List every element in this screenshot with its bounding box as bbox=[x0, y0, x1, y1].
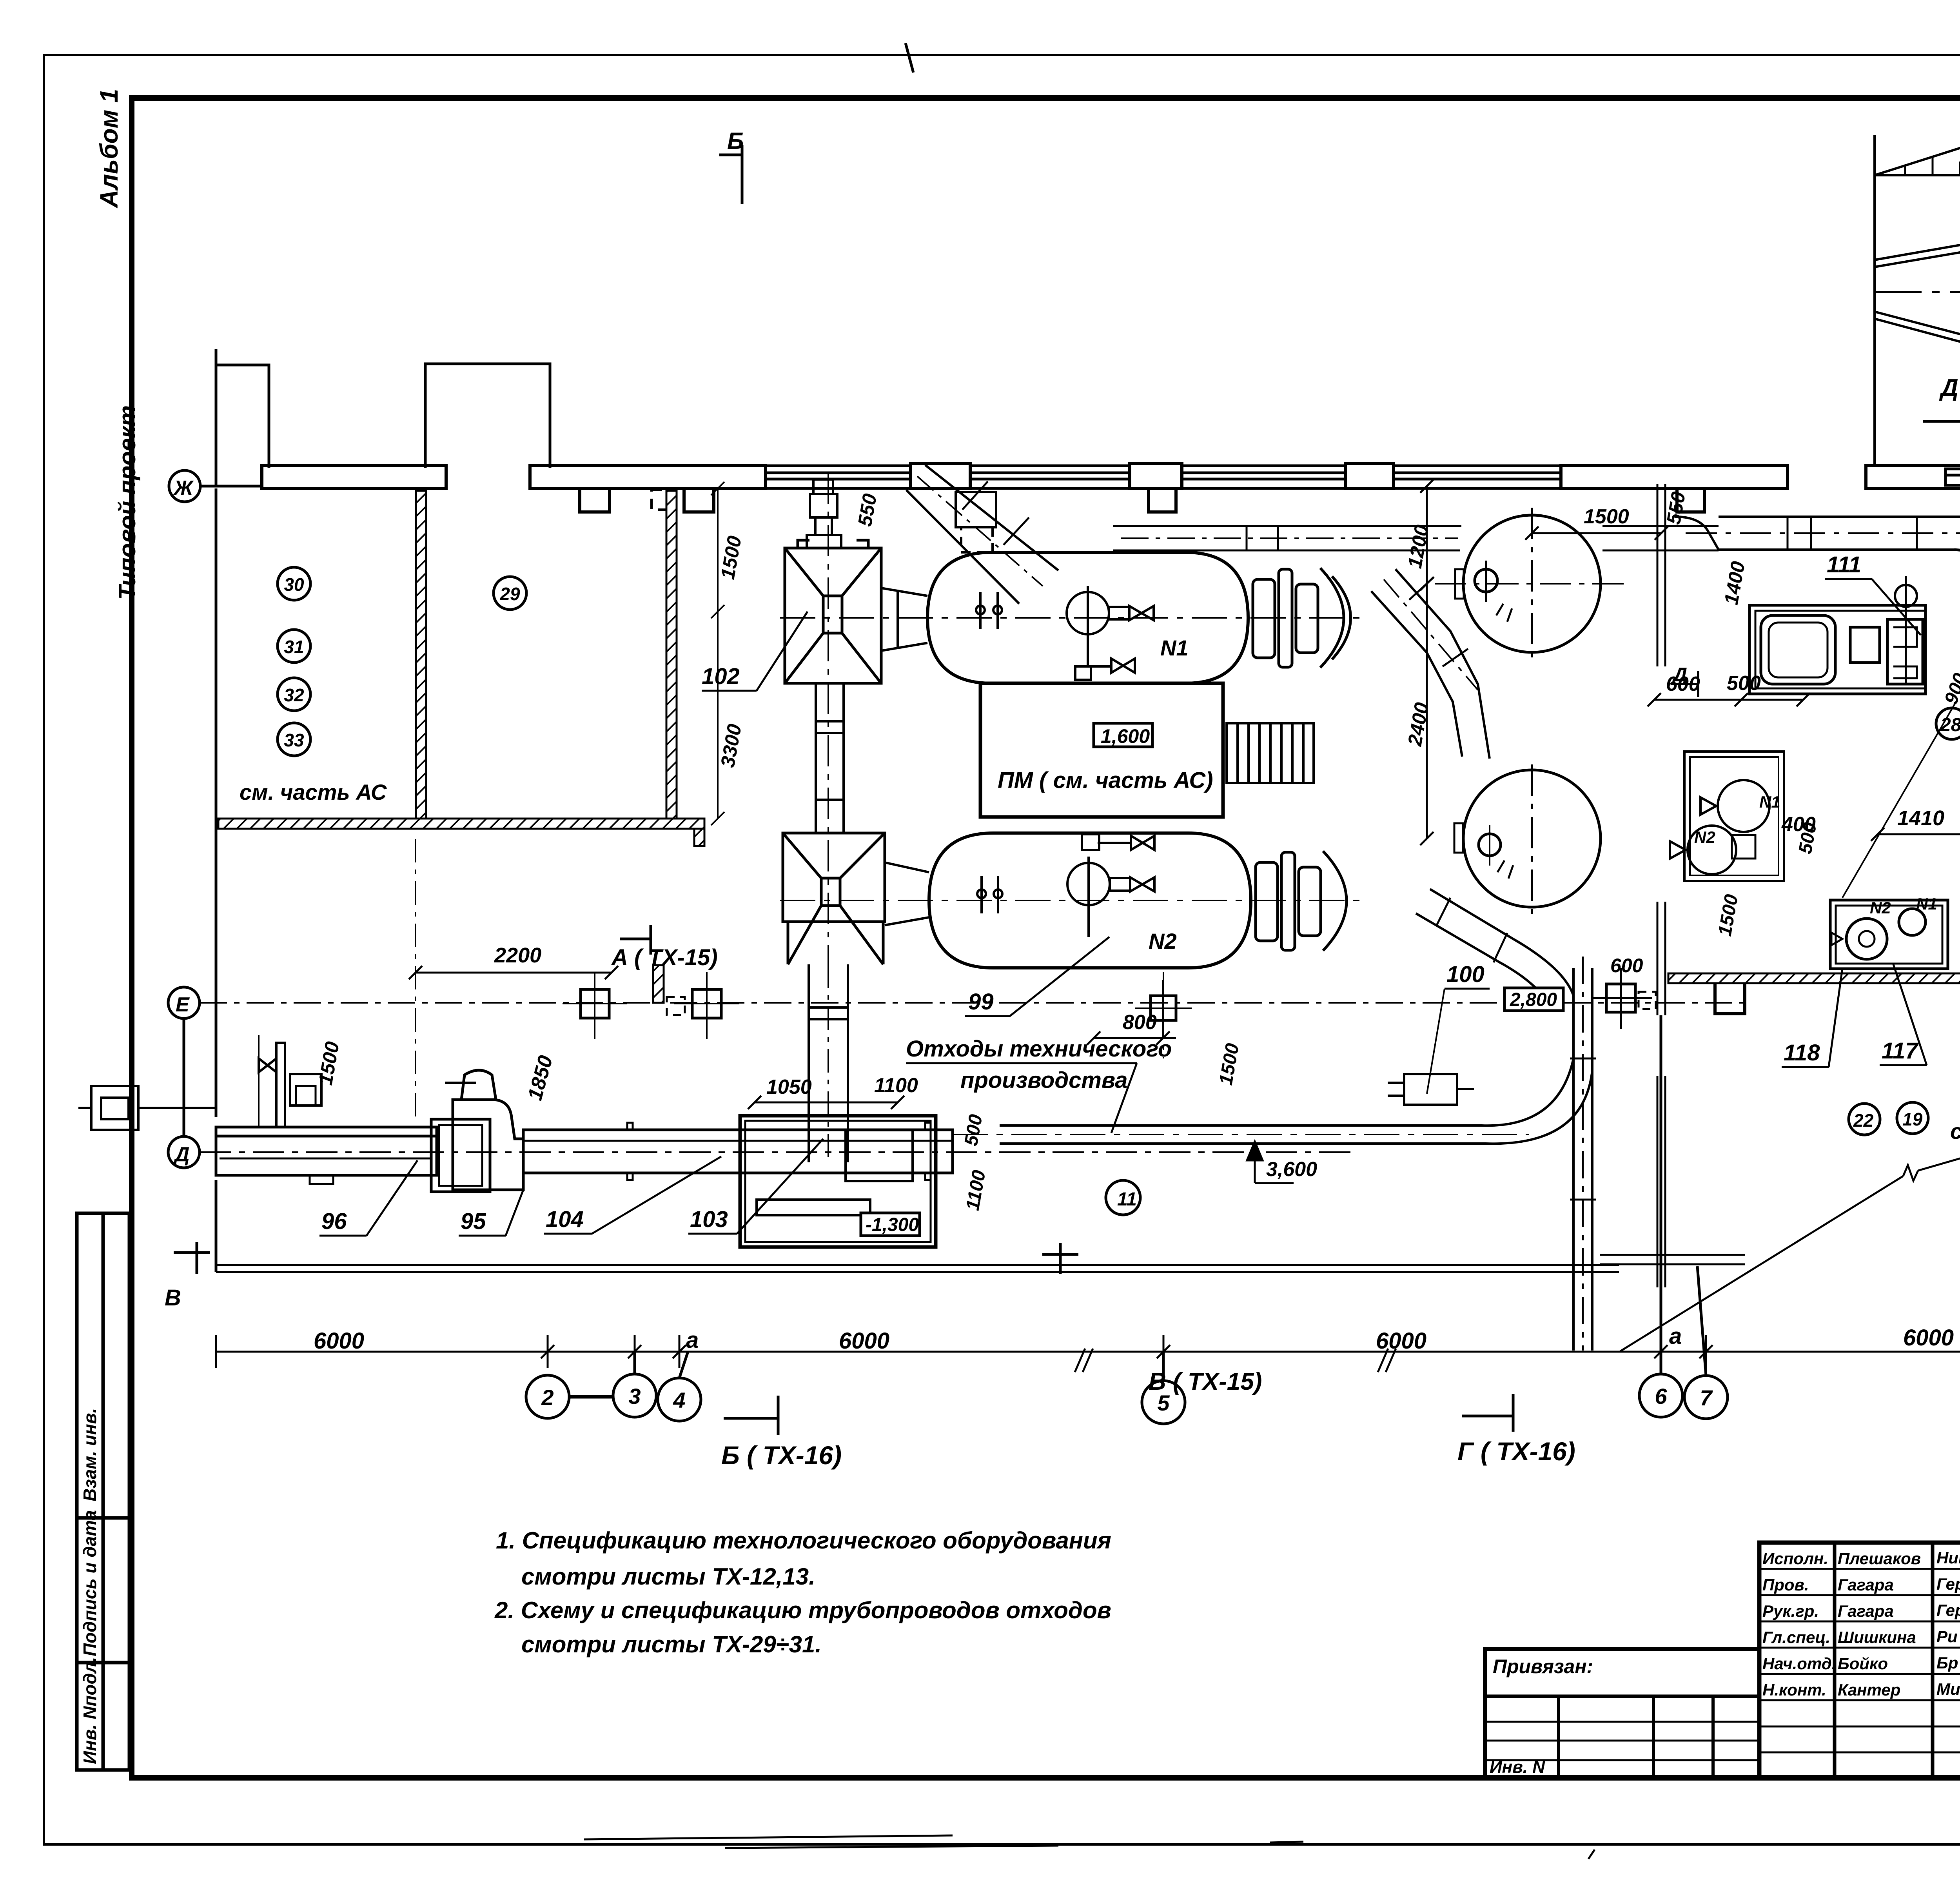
svg-text:Альбом 1: Альбом 1 bbox=[95, 89, 123, 209]
window band 4 bbox=[1394, 466, 1561, 488]
svg-text:7: 7 bbox=[1700, 1385, 1713, 1410]
svg-text:ПМ ( см. часть АС): ПМ ( см. часть АС) bbox=[998, 768, 1213, 793]
hatched wall between room AC and room 29 bbox=[416, 491, 426, 822]
svg-text:Кантер: Кантер bbox=[1838, 1681, 1900, 1699]
svg-text:103: 103 bbox=[690, 1207, 728, 1232]
feed cone into N1 bbox=[881, 588, 927, 651]
ref circle 29 bbox=[494, 577, 526, 610]
elevation box 1,600 bbox=[1094, 723, 1152, 747]
svg-text:а: а bbox=[1669, 1323, 1682, 1349]
waste pipe vertical duct bbox=[1570, 957, 1596, 1351]
window band 1 bbox=[766, 466, 911, 488]
bottom margin smudge bbox=[584, 1835, 1595, 1859]
railing tick marks bbox=[1905, 134, 1960, 175]
svg-text:Пров.: Пров. bbox=[1762, 1576, 1809, 1594]
shaft between hoppers bbox=[816, 683, 844, 833]
hopper unit 102 lower box with funnel bbox=[783, 833, 885, 964]
svg-text:1410: 1410 bbox=[1897, 806, 1944, 830]
svg-text:2: 2 bbox=[541, 1385, 554, 1410]
axis leader lines up bbox=[633, 1352, 636, 1374]
svg-text:Привязан:: Привязан: bbox=[1493, 1656, 1593, 1677]
window band 2 bbox=[970, 466, 1130, 488]
axis Е circle bbox=[168, 987, 200, 1136]
svg-text:Бр: Бр bbox=[1936, 1654, 1958, 1672]
building bottom wall bbox=[216, 1265, 1619, 1272]
section mark Б top bbox=[719, 145, 742, 204]
svg-text:Шишкина: Шишкина bbox=[1838, 1628, 1916, 1646]
svg-text:Гл.спец.: Гл.спец. bbox=[1762, 1628, 1830, 1646]
svg-text:Е: Е bbox=[176, 993, 190, 1016]
vessel N1 scalder bbox=[927, 552, 1248, 683]
road upper edge bbox=[1875, 242, 1960, 267]
svg-text:800: 800 bbox=[1123, 1011, 1157, 1034]
vessel N2 fittings bbox=[977, 834, 1154, 937]
estakada left boundary bbox=[1873, 135, 1876, 465]
svg-text:500: 500 bbox=[1727, 672, 1761, 695]
bottom hatched wall of AC rooms bbox=[218, 819, 704, 829]
svg-text:100: 100 bbox=[1446, 962, 1485, 987]
dashed opening next to hatched wall bbox=[652, 490, 676, 510]
leader diagonals from 117/118 to equipment bbox=[1842, 702, 1960, 898]
axis Д circle bbox=[168, 1136, 200, 1168]
road lower edge bbox=[1875, 312, 1960, 347]
hatched wall right of room 29 bbox=[666, 491, 677, 822]
svg-text:Исполн.: Исполн. bbox=[1762, 1549, 1828, 1568]
svg-text:99: 99 bbox=[968, 989, 994, 1015]
svg-text:см. часть АС: см. часть АС bbox=[240, 780, 387, 804]
bottom overall dimension line bbox=[216, 1335, 1960, 1368]
svg-text:3,600: 3,600 bbox=[1266, 1158, 1317, 1181]
privyazan block bbox=[1485, 1649, 1759, 1778]
overhead duct dashed to elbow bbox=[1675, 517, 1960, 550]
Д section small mark bbox=[1671, 671, 1698, 697]
svg-text:95: 95 bbox=[461, 1209, 486, 1234]
axis Д / conveyor centerline bbox=[200, 1151, 1352, 1153]
svg-text:4: 4 bbox=[673, 1388, 685, 1412]
svg-text:6000: 6000 bbox=[1376, 1328, 1426, 1354]
pump unit 117 box bbox=[1830, 900, 1948, 969]
svg-text:Взам. инв.: Взам. инв. bbox=[80, 1408, 100, 1501]
elevation box 2,800 bbox=[1504, 988, 1563, 1011]
vessel N2 centerline bbox=[780, 900, 1360, 901]
diagonal duct into vessel N1 bbox=[906, 465, 1058, 604]
svg-text:Рук.гр.: Рук.гр. bbox=[1762, 1602, 1819, 1620]
waste pipe centerline bbox=[953, 1134, 1529, 1135]
column squares with crosses left area bbox=[563, 965, 739, 1039]
overhead duct above vessels to tank bbox=[1113, 526, 1461, 550]
svg-text:Д ( ТХ-15): Д ( ТХ-15) bbox=[1939, 374, 1960, 401]
waste pipe horizontal bbox=[1000, 1058, 1592, 1144]
top exterior wall band bbox=[262, 463, 1960, 488]
svg-text:производства: производства bbox=[960, 1067, 1128, 1093]
svg-text:96: 96 bbox=[321, 1209, 347, 1234]
svg-text:6000: 6000 bbox=[839, 1328, 889, 1354]
ref circles 22 19 bbox=[1849, 1104, 1880, 1135]
conveyor 96 discharge head bbox=[431, 1119, 490, 1192]
duct segment tank1 to elbow bbox=[1602, 526, 1719, 550]
left margin stamp strip bbox=[77, 1213, 129, 1770]
title block grid bbox=[1485, 1543, 1960, 1778]
svg-text:11: 11 bbox=[1117, 1189, 1137, 1210]
svg-text:N2: N2 bbox=[1149, 929, 1177, 953]
svg-text:Б ( ТХ-16): Б ( ТХ-16) bbox=[721, 1441, 842, 1470]
svg-text:33: 33 bbox=[284, 730, 304, 750]
conveyor 96 casing bbox=[216, 1127, 437, 1184]
svg-text:В: В bbox=[165, 1285, 181, 1311]
svg-text:22: 22 bbox=[1853, 1110, 1874, 1131]
svg-text:104: 104 bbox=[546, 1207, 584, 1232]
svg-text:Инв. N: Инв. N bbox=[1490, 1757, 1545, 1777]
wall bar segment axes3-4 bbox=[530, 466, 766, 488]
svg-text:117: 117 bbox=[1882, 1038, 1919, 1064]
wall bar segment axis2 area bbox=[262, 466, 446, 488]
left wall of见 room bbox=[215, 488, 218, 1117]
svg-text:Н.конт.: Н.конт. bbox=[1762, 1681, 1826, 1699]
svg-text:3: 3 bbox=[628, 1384, 641, 1409]
break marks on bottom wall bbox=[1075, 1349, 1396, 1372]
svg-text:Гагара: Гагара bbox=[1838, 1576, 1894, 1594]
6000 dimension labels bbox=[314, 1323, 1960, 1354]
svg-text:1. Спецификацию технологическ: 1. Спецификацию технологического оборудо… bbox=[496, 1527, 1111, 1554]
tambour protruding room bbox=[425, 364, 550, 468]
svg-text:19: 19 bbox=[1902, 1109, 1923, 1129]
wall bar эстакада side left bbox=[1866, 466, 1960, 488]
platform PM rectangle bbox=[980, 683, 1223, 817]
svg-text:В ( ТХ-15): В ( ТХ-15) bbox=[1149, 1368, 1262, 1395]
svg-text:30: 30 bbox=[284, 574, 304, 595]
svg-text:2. Схему и спецификацию тру: 2. Схему и спецификацию трубопроводов от… bbox=[494, 1597, 1111, 1623]
svg-text:Ри: Ри bbox=[1936, 1627, 1958, 1646]
ref circle 11 bbox=[1106, 1180, 1140, 1215]
column marks under top wall bbox=[580, 488, 1960, 512]
svg-text:102: 102 bbox=[702, 664, 740, 689]
svg-text:400: 400 bbox=[1781, 813, 1816, 836]
vessel N2 drive end bbox=[1256, 851, 1347, 951]
svg-text:N1: N1 bbox=[1160, 635, 1189, 660]
chute from tank2 to waste duct bbox=[1416, 889, 1573, 1011]
svg-text:Мид: Мид bbox=[1936, 1680, 1960, 1698]
ref circles 30-33 bbox=[278, 567, 526, 756]
svg-text:Гер: Гер bbox=[1936, 1601, 1960, 1619]
vessel N1 centerline bbox=[780, 617, 1360, 619]
svg-text:Б: Б bbox=[727, 128, 744, 154]
cross partition bbox=[1600, 1254, 1745, 1256]
ref circle 28 bbox=[1936, 708, 1960, 739]
svg-text:Плешаков: Плешаков bbox=[1838, 1549, 1921, 1568]
section А-А cut line vertical bbox=[415, 839, 416, 1121]
svg-text:Бойко: Бойко bbox=[1838, 1654, 1888, 1673]
screw conveyor 104 bbox=[523, 1123, 953, 1180]
top border artifact slash bbox=[906, 43, 913, 73]
svg-text:Г ( ТХ-16): Г ( ТХ-16) bbox=[1457, 1437, 1575, 1466]
chute from tank1 down bbox=[1371, 569, 1490, 759]
svg-text:2200: 2200 bbox=[494, 944, 541, 967]
section Г bottom arrow bbox=[1462, 1394, 1513, 1432]
svg-text:1500: 1500 bbox=[1584, 505, 1629, 528]
vessel N1 fittings bbox=[976, 586, 1154, 680]
round tank 1 bbox=[1435, 508, 1631, 663]
axis Ж circle bbox=[169, 470, 263, 502]
svg-text:6000: 6000 bbox=[314, 1328, 364, 1354]
svg-text:см. часть АС: см. часть АС bbox=[1950, 1119, 1960, 1144]
hopper unit 102 upper: motor stack bbox=[807, 479, 841, 548]
vessel N2 scalder bbox=[929, 833, 1251, 968]
long site boundary diagonal bbox=[1620, 995, 1960, 1351]
pump unit frame lower (118) bbox=[1670, 752, 1784, 881]
section Д arrow bbox=[1923, 404, 1960, 439]
svg-text:N1: N1 bbox=[1759, 793, 1780, 811]
feed cone into N2 bbox=[885, 862, 929, 925]
axis circles bottom row bbox=[526, 984, 1960, 1424]
svg-text:1,600: 1,600 bbox=[1101, 725, 1150, 747]
elevation 3,600 with arrow bbox=[1247, 1142, 1294, 1183]
wall bar segment axis5 right bbox=[1561, 466, 1788, 488]
svg-text:N2: N2 bbox=[1870, 899, 1891, 917]
svg-text:32: 32 bbox=[284, 685, 304, 705]
dividing hatched wall of right section bbox=[1668, 973, 1960, 983]
window band right wing bbox=[1945, 469, 1960, 485]
svg-text:-1,300: -1,300 bbox=[866, 1214, 919, 1235]
svg-text:N1: N1 bbox=[1916, 895, 1937, 913]
feeder on conveyor 96 bbox=[259, 1035, 321, 1127]
svg-text:Отходы технического: Отходы технического bbox=[906, 1036, 1172, 1062]
svg-text:118: 118 bbox=[1784, 1040, 1820, 1066]
elevator shaft to pit bbox=[809, 964, 848, 1162]
section tick В mid-bottom bbox=[1042, 1243, 1078, 1274]
svg-text:31: 31 bbox=[284, 637, 304, 657]
svg-text:111: 111 bbox=[1827, 552, 1861, 577]
svg-text:1050: 1050 bbox=[766, 1076, 812, 1098]
svg-text:Подпись и дата: Подпись и дата bbox=[80, 1510, 100, 1656]
vertical dim line tanks bbox=[1420, 479, 1434, 845]
upper-left room stub walls bbox=[216, 349, 550, 486]
svg-text:Инв. Nподл.: Инв. Nподл. bbox=[80, 1657, 100, 1764]
road centerline bbox=[1875, 291, 1960, 293]
pier bbox=[911, 463, 970, 488]
svg-text:а: а bbox=[686, 1327, 699, 1353]
svg-text:Типовой проект: Типовой проект bbox=[114, 405, 140, 600]
svg-text:600: 600 bbox=[1666, 673, 1700, 695]
signature rows text bbox=[1762, 1548, 1960, 1699]
svg-text:600: 600 bbox=[1610, 955, 1643, 977]
svg-text:смотри листы ТХ-12,13.: смотри листы ТХ-12,13. bbox=[521, 1563, 815, 1590]
svg-text:Ним: Ним bbox=[1936, 1548, 1960, 1567]
svg-text:29: 29 bbox=[499, 584, 520, 604]
pit 103 box bbox=[740, 1116, 936, 1247]
svg-text:Гагара: Гагара bbox=[1838, 1602, 1894, 1620]
tick slashes bbox=[541, 1345, 554, 1358]
big elbow duct down bbox=[1954, 517, 1960, 676]
svg-text:6000: 6000 bbox=[1903, 1325, 1954, 1351]
svg-text:2,800: 2,800 bbox=[1510, 989, 1557, 1010]
hopper unit 102 upper box with funnel bbox=[785, 540, 881, 683]
pump 95 bbox=[445, 1070, 523, 1190]
section А mark bbox=[620, 925, 651, 955]
svg-text:Д: Д bbox=[173, 1143, 190, 1166]
hatched wall return stub bbox=[694, 829, 704, 846]
svg-text:N2: N2 bbox=[1694, 828, 1715, 846]
svg-text:Гер: Гер bbox=[1936, 1575, 1960, 1593]
roof opening boxes above N1 bbox=[956, 492, 996, 552]
svg-text:6: 6 bbox=[1655, 1384, 1667, 1409]
estakada railing base line bbox=[1875, 134, 1960, 175]
window band 3 bbox=[1182, 466, 1345, 488]
left inner room walls bbox=[215, 488, 218, 1272]
svg-text:Ж: Ж bbox=[173, 477, 194, 499]
column squares row under vessels bbox=[1135, 980, 1192, 1037]
round tank 2 bbox=[1454, 764, 1601, 917]
small apparatus 100 bbox=[1388, 1074, 1474, 1105]
partition wall axis6 bbox=[1600, 484, 1745, 1287]
section Б bottom arrow bbox=[724, 1396, 778, 1435]
signature table bbox=[1759, 1543, 1960, 1778]
pier bbox=[1130, 463, 1182, 488]
svg-text:1100: 1100 bbox=[874, 1074, 918, 1097]
section mark В left bbox=[174, 1242, 210, 1274]
pier bbox=[1345, 463, 1394, 488]
stairs right of platform bbox=[1227, 723, 1314, 783]
vessel N1 drive end bbox=[1253, 568, 1351, 668]
column square with cross mid bbox=[1591, 968, 1656, 1029]
small drive unit left of wall bbox=[78, 1086, 216, 1130]
column under dividing wall bbox=[1715, 983, 1745, 1014]
axis numbers bbox=[541, 1384, 1960, 1415]
elevation box -1,300 bbox=[861, 1213, 920, 1236]
svg-text:Нач.отд.: Нач.отд. bbox=[1762, 1654, 1836, 1673]
axis Е dash-dot line bbox=[200, 1002, 1748, 1004]
svg-text:смотри листы ТХ-29÷31.: смотри листы ТХ-29÷31. bbox=[521, 1631, 822, 1657]
machine 111 bbox=[1749, 576, 1926, 694]
